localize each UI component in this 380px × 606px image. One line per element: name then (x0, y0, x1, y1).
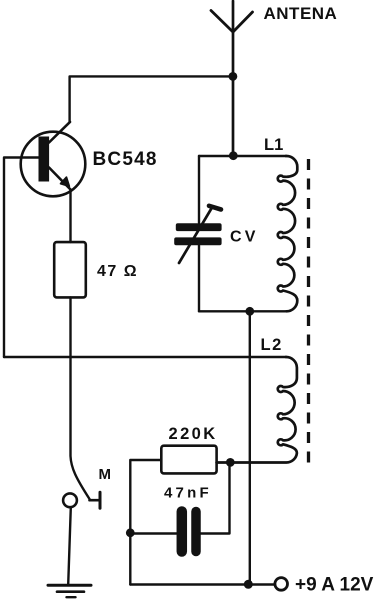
svg-text:47nF: 47nF (164, 485, 212, 502)
svg-text:CV: CV (230, 229, 259, 246)
wire switch to ground (68, 507, 71, 584)
svg-text:M: M (99, 466, 112, 483)
svg-text:220K: 220K (169, 425, 218, 443)
wire collector top (70, 76, 233, 122)
svg-text:+9 A 12V: +9 A 12V (295, 574, 374, 595)
junction dot 220K right node (226, 458, 235, 467)
wire base lead and left rail (4, 158, 39, 358)
core dashed line (307, 159, 310, 466)
inductor L1 (278, 156, 298, 311)
terminal supply (275, 578, 288, 591)
junction dot bottom rail (244, 580, 253, 589)
wire bottom supply rail (130, 583, 275, 585)
junction dot cap left (126, 528, 135, 537)
resistor 47 ohm (54, 242, 86, 297)
switch M (63, 492, 100, 508)
wire emitter to resistor (69, 190, 71, 242)
svg-text:ANTENA: ANTENA (264, 4, 338, 23)
capacitor 47nF (130, 462, 229, 551)
junction dot antenna node (229, 72, 238, 81)
wire base bias horizontal to L2 (4, 356, 286, 358)
svg-text:47 Ω: 47 Ω (97, 263, 138, 280)
svg-text:L1: L1 (264, 136, 283, 154)
svg-text:L2: L2 (261, 336, 283, 354)
ground (48, 585, 91, 597)
tank circuit wires (199, 156, 286, 311)
svg-text:BC548: BC548 (93, 149, 158, 170)
wire 220K left lead (130, 460, 161, 585)
antenna (211, 1, 253, 156)
junction dot tank bottom (245, 307, 254, 316)
junction dot tank top (229, 151, 238, 160)
resistor 220K (161, 446, 216, 474)
capacitor CV (variable) (174, 206, 221, 263)
wire resistor to switch (71, 297, 90, 499)
wire tank bottom to supply rail (249, 311, 251, 584)
transistor Q1 BC548 (21, 122, 86, 196)
inductor L2 (217, 357, 297, 463)
